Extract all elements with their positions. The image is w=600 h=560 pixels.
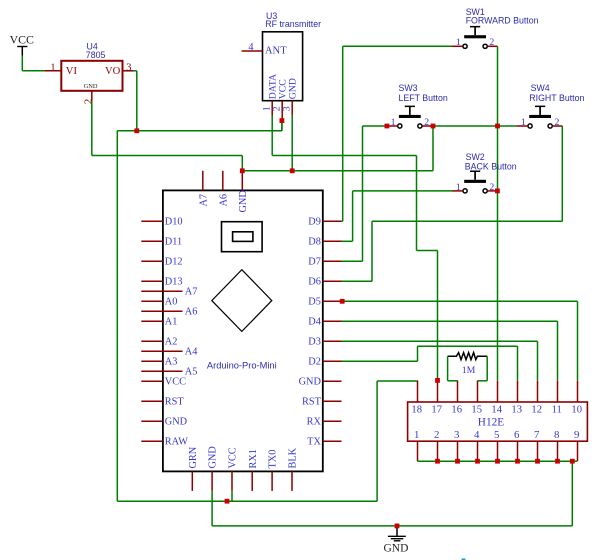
- svg-text:VI: VI: [66, 66, 78, 77]
- Arduino left pin RST stub: [141, 400, 163, 402]
- Arduino left pin A5 stub: [141, 370, 182, 372]
- Arduino top pin GND stub: [241, 171, 243, 191]
- SW3 pin 2 stub: [422, 125, 433, 127]
- SW2 pin 1 stub: [452, 190, 463, 192]
- U3 pin name GND: [288, 78, 299, 99]
- U3 pin 4 stub: [242, 50, 263, 52]
- Arduino pin name A3: [165, 356, 178, 367]
- RF transmitter U3 box: [263, 32, 303, 101]
- svg-text:GND: GND: [165, 416, 188, 427]
- Arduino right pin D8 stub: [323, 240, 342, 242]
- pin number 7 of H12E: [534, 429, 540, 441]
- svg-text:RX: RX: [307, 416, 322, 427]
- Arduino pin name RX right: [307, 416, 322, 427]
- pin number 6 of H12E: [514, 429, 520, 441]
- U3 pin 3 stub: [291, 101, 293, 115]
- pin number 1 of U4: [50, 62, 55, 73]
- svg-text:FORWARD Button: FORWARD Button: [466, 15, 539, 25]
- svg-text:7: 7: [534, 429, 540, 441]
- value RIGHT Button: [529, 93, 584, 103]
- junction at Arduino VCC pin: [225, 499, 230, 504]
- svg-text:A7: A7: [185, 286, 198, 297]
- wire GND rail up to H12E bus: [571, 461, 573, 526]
- svg-text:10: 10: [571, 405, 582, 416]
- Arduino top pin name A7: [198, 194, 209, 207]
- Arduino bottom pin name GRN: [188, 446, 199, 468]
- U4 pin name VI: [66, 66, 78, 77]
- svg-text:18: 18: [411, 405, 422, 416]
- svg-text:GND: GND: [299, 376, 322, 387]
- H12E bottom pin 1 stub: [417, 441, 419, 461]
- junction on GND bus at x=537.5: [535, 459, 540, 464]
- H12E bottom pin 8 stub: [557, 441, 559, 461]
- svg-text:3: 3: [282, 106, 293, 111]
- pin number 2 of U3: [272, 106, 283, 111]
- Arduino bottom pin GRN stub: [191, 471, 193, 491]
- pushbutton SW3: [398, 106, 422, 129]
- pin number 17 of H12E: [431, 405, 442, 416]
- svg-text:TX0: TX0: [268, 450, 279, 469]
- svg-text:1: 1: [50, 62, 55, 73]
- pin number 15 of H12E: [471, 405, 482, 416]
- pin number 2 of SW1: [489, 37, 494, 48]
- svg-text:GND: GND: [208, 446, 219, 469]
- svg-text:4: 4: [248, 42, 253, 53]
- Arduino right pin D9 stub: [323, 220, 342, 222]
- pin number 2 of H12E: [434, 429, 439, 441]
- Arduino pin name D6 right: [308, 276, 321, 287]
- pin number 4 of H12E: [474, 429, 480, 441]
- label SW4: [531, 83, 550, 93]
- wire U4 VO down: [134, 71, 137, 131]
- U3 pin name VCC: [278, 79, 289, 99]
- Arduino left pin D11 stub: [141, 240, 163, 242]
- pin number 1 of SW4: [521, 117, 526, 128]
- svg-text:D8: D8: [308, 236, 321, 247]
- SW3 pin 1 stub: [387, 125, 398, 127]
- junction on GND bus at x=497.5: [495, 459, 500, 464]
- Arduino bottom pin BLK stub: [291, 471, 293, 491]
- H12E bottom pin 3 stub: [457, 441, 459, 461]
- wire GND down to Arduino top GND pin: [241, 156, 243, 171]
- wire Arduino GND pin down: [211, 491, 213, 526]
- Arduino right pin GND stub: [323, 380, 342, 382]
- H12E bottom pin 2 stub: [437, 441, 439, 461]
- value BACK Button: [465, 162, 517, 172]
- label U3: [266, 11, 277, 21]
- Arduino pin name D8 right: [308, 236, 321, 247]
- IC diamond symbol inside Arduino: [212, 270, 272, 332]
- H12E top pin 18 stub: [417, 381, 419, 402]
- svg-text:D11: D11: [165, 236, 182, 247]
- svg-text:RX1: RX1: [248, 449, 259, 468]
- junction at SW3 pin 1: [385, 124, 390, 129]
- Arduino pin name D3 right: [308, 336, 321, 347]
- Arduino right pin D2 stub: [323, 360, 342, 362]
- svg-text:TX: TX: [307, 436, 321, 447]
- svg-text:2: 2: [83, 99, 95, 105]
- svg-text:RAW: RAW: [165, 436, 188, 447]
- SW1 pin 1 stub: [452, 45, 463, 47]
- U4 pin name VO: [105, 66, 121, 77]
- blue mark at bottom edge: [462, 558, 466, 560]
- junction TE at SW2 pin 2: [495, 189, 500, 194]
- Arduino left pin A6 stub: [141, 310, 182, 312]
- svg-text:12: 12: [531, 405, 542, 416]
- power symbol VCC: [10, 32, 34, 55]
- svg-text:VCC: VCC: [165, 376, 186, 387]
- Arduino right pin RX stub: [323, 420, 342, 422]
- svg-text:SW2: SW2: [466, 152, 485, 162]
- H12E top pin 15 stub: [477, 381, 479, 402]
- H12E bottom pin 5 stub: [497, 441, 499, 461]
- svg-text:VO: VO: [105, 66, 121, 77]
- pushbutton SW4: [528, 106, 552, 129]
- svg-text:BACK Button: BACK Button: [465, 162, 517, 172]
- Arduino right pin RST stub: [323, 400, 342, 402]
- wire GND rail right: [242, 170, 433, 172]
- H12E top pin 11 stub: [557, 381, 559, 402]
- H12E top pin 16 stub: [457, 381, 459, 402]
- Arduino pin name A5: [185, 366, 198, 377]
- svg-text:VCC: VCC: [228, 447, 239, 468]
- svg-text:RF transmitter: RF transmitter: [265, 19, 321, 29]
- Arduino bottom pin name VCC: [228, 447, 239, 468]
- Arduino bottom pin GND stub: [211, 471, 213, 491]
- Arduino pin name D10: [165, 216, 183, 227]
- Arduino right pin D6 stub: [323, 280, 342, 282]
- Arduino pin name TX right: [307, 436, 321, 447]
- voltage regulator U4 box: [61, 61, 122, 91]
- U3 pin name DATA: [268, 74, 279, 99]
- Arduino bottom pin VCC stub: [231, 471, 233, 491]
- Arduino right pin D4 stub: [323, 320, 342, 322]
- pin number 1 of SW1: [456, 37, 461, 48]
- wire 5V rail up to H12E pin 18: [377, 381, 417, 501]
- wire SW1 pin1 to D9: [342, 46, 452, 221]
- H12E top pin 14 stub: [497, 381, 499, 402]
- U3 pin 2 stub: [281, 101, 283, 119]
- wire SW1 pin2 to TE vertical: [497, 46, 499, 380]
- pin number 16 of H12E: [451, 405, 462, 416]
- Arduino top pin name A6: [218, 194, 229, 207]
- value 1M: [462, 365, 476, 376]
- svg-text:LEFT Button: LEFT Button: [399, 93, 448, 103]
- junction on GND bus at corner: [570, 459, 575, 464]
- U4 pin 1 stub: [45, 70, 61, 72]
- Arduino left pin VCC stub: [141, 380, 163, 382]
- Arduino left pin D12 stub: [141, 260, 163, 262]
- wire D4 to H12E pin 11: [342, 321, 558, 380]
- pin number 3 of U3: [282, 106, 293, 111]
- Arduino top pin name GND: [238, 190, 249, 213]
- SW1 pin 2 stub: [488, 45, 498, 47]
- svg-text:A0: A0: [165, 296, 178, 307]
- svg-text:D4: D4: [308, 316, 321, 327]
- svg-text:A1: A1: [165, 316, 178, 327]
- junction on GND bus at x=517.5: [515, 459, 520, 464]
- wire SW3 pin2 to SW4 pin1: [433, 125, 516, 127]
- Arduino right pin D3 stub: [323, 340, 342, 342]
- wire SW3 pin1 to D7: [342, 126, 387, 261]
- wire DOUT down to H12E pin 17: [437, 251, 439, 381]
- svg-text:3: 3: [454, 429, 459, 441]
- svg-text:8: 8: [554, 429, 559, 441]
- value Arduino-Pro-Mini: [207, 360, 277, 370]
- svg-text:A2: A2: [165, 336, 178, 347]
- label U4: [87, 42, 98, 52]
- Arduino pin name D5 right: [308, 296, 321, 307]
- Arduino left pin A1 stub: [141, 320, 163, 322]
- svg-text:15: 15: [471, 405, 482, 416]
- pin number 12 of H12E: [531, 405, 542, 416]
- wire D3 to H12E pin 12: [342, 341, 538, 380]
- Arduino-Pro-Mini U-box: [163, 190, 323, 471]
- Arduino pin name D7 right: [308, 256, 321, 267]
- value 7805: [86, 50, 106, 60]
- Arduino pin name A7: [185, 286, 198, 297]
- SW4 pin 2 stub: [552, 125, 562, 127]
- Arduino pin name VCC: [165, 376, 186, 387]
- junction at Arduino D5 pin: [340, 299, 345, 304]
- encoder H12E box: [408, 402, 588, 441]
- Arduino bottom pin TX0 stub: [271, 471, 273, 491]
- pin number 14 of H12E: [491, 405, 502, 416]
- junction TE at button row: [495, 124, 500, 129]
- Arduino bottom pin name BLK: [288, 447, 299, 468]
- U4 pin 3 stub: [123, 70, 134, 72]
- U3 pin 1 stub: [271, 101, 273, 115]
- H12E top pin 12 stub: [537, 381, 539, 402]
- pin number 5 of H12E: [494, 429, 499, 441]
- svg-text:A5: A5: [185, 366, 198, 377]
- wire SW2 pin1 to D8: [342, 191, 453, 241]
- wire H12E address bus to GND: [418, 460, 578, 462]
- pin number 11 of H12E: [552, 405, 562, 416]
- svg-text:A4: A4: [185, 346, 198, 357]
- wire resistor left to H12E pin 16: [448, 356, 458, 381]
- value RF transmitter: [265, 19, 321, 29]
- U4 pin 2 stub: [91, 91, 93, 101]
- svg-text:1M: 1M: [462, 365, 476, 376]
- junction on GND bus at x=477.5: [475, 459, 480, 464]
- svg-text:H12E: H12E: [478, 416, 504, 428]
- value FORWARD Button: [466, 15, 539, 25]
- svg-text:A7: A7: [198, 194, 209, 207]
- label H12E: [478, 416, 504, 428]
- pin number 2 of SW2: [489, 182, 494, 193]
- U3 pin name ANT: [265, 45, 287, 56]
- Arduino pin name RST right: [302, 396, 322, 407]
- pin number 18 of H12E: [411, 405, 422, 416]
- Arduino right pin TX stub: [323, 440, 342, 442]
- svg-text:D3: D3: [308, 336, 321, 347]
- pin number 10 of H12E: [571, 405, 582, 416]
- svg-text:D12: D12: [165, 256, 183, 267]
- svg-text:D7: D7: [308, 256, 321, 267]
- Arduino right pin D7 stub: [323, 260, 342, 262]
- wire 5V rail left: [117, 130, 137, 132]
- svg-text:GRN: GRN: [188, 446, 199, 468]
- svg-text:BLK: BLK: [288, 447, 299, 468]
- svg-text:17: 17: [431, 405, 442, 416]
- svg-text:GND: GND: [384, 543, 409, 555]
- Arduino pin name A4: [185, 346, 198, 357]
- H12E bottom pin 4 stub: [477, 441, 479, 461]
- pin number 1 of U3: [262, 106, 273, 111]
- pin number 9 of H12E: [574, 429, 579, 441]
- junction at H12E pin 17: [435, 378, 440, 383]
- Arduino left pin D13 stub: [141, 280, 163, 282]
- Arduino pin name D9 right: [308, 216, 321, 227]
- Arduino right pin D5 stub: [323, 300, 342, 302]
- svg-text:GND: GND: [84, 83, 98, 90]
- svg-text:D6: D6: [308, 276, 321, 287]
- pin number 4 of U3: [248, 42, 253, 53]
- pushbutton SW1: [463, 26, 487, 49]
- H12E top pin 13 stub: [517, 381, 519, 402]
- pushbutton SW2: [463, 171, 487, 193]
- wire GND rail up to SW3 pin 2: [432, 126, 434, 171]
- svg-text:A3: A3: [165, 356, 178, 367]
- wire D2 to H12E pin 13: [342, 346, 518, 380]
- wire 5V rail to U3 VCC: [137, 119, 282, 131]
- label SW1: [466, 7, 485, 17]
- svg-text:14: 14: [491, 405, 502, 416]
- H12E top pin 17 stub: [437, 381, 439, 402]
- Arduino pin name RAW: [165, 436, 188, 447]
- svg-text:7805: 7805: [86, 50, 106, 60]
- svg-text:A6: A6: [185, 306, 198, 317]
- junction on GND bus at x=457.5: [455, 459, 460, 464]
- svg-text:D9: D9: [308, 216, 321, 227]
- wire U3 GND down to GND rail: [291, 115, 293, 171]
- Arduino pin name GND right: [299, 376, 322, 387]
- pin number 8 of H12E: [554, 429, 559, 441]
- svg-text:2: 2: [434, 429, 439, 441]
- Arduino left pin A7 stub: [141, 290, 182, 292]
- wire U3 DATA down: [271, 115, 273, 156]
- wire SW4 pin2 to D6: [342, 126, 563, 281]
- pin number 2 of U4: [83, 99, 95, 105]
- svg-text:1: 1: [414, 429, 419, 441]
- value LEFT Button: [399, 93, 448, 103]
- svg-text:GND: GND: [288, 78, 299, 99]
- junction at U3 GND wire: [290, 168, 295, 173]
- pin number 13 of H12E: [511, 405, 522, 416]
- SW2 pin 2 stub: [488, 190, 496, 192]
- junction at SW3 pin 2: [431, 124, 436, 129]
- Arduino bottom pin name TX0: [268, 450, 279, 469]
- wire D5 to H12E pin 10: [342, 301, 577, 380]
- Arduino pin name D4 right: [308, 316, 321, 327]
- crystal symbol inside Arduino: [222, 222, 263, 252]
- Arduino top pin A7 stub: [202, 171, 204, 191]
- wire Arduino VCC pin to 5V rail: [231, 491, 233, 501]
- wire resistor right to H12E pin 15: [478, 356, 488, 381]
- svg-text:GND: GND: [238, 190, 249, 213]
- junction at U3 pin 2: [280, 118, 285, 123]
- svg-text:5: 5: [494, 429, 499, 441]
- Arduino pin name D2 right: [308, 356, 321, 367]
- Arduino left pin GND stub: [141, 420, 163, 422]
- wire bottom GND rail: [212, 525, 572, 527]
- svg-text:Arduino-Pro-Mini: Arduino-Pro-Mini: [207, 360, 277, 370]
- wire 5V vertical down left side: [116, 131, 118, 501]
- label SW3: [399, 83, 418, 93]
- svg-text:4: 4: [474, 429, 480, 441]
- Arduino left pin RAW stub: [141, 440, 163, 442]
- svg-text:SW4: SW4: [531, 83, 550, 93]
- pin number 1 of SW3: [391, 117, 396, 128]
- junction on GND bus at x=557.5: [555, 459, 560, 464]
- wire U3 VCC down to 5V corner: [281, 122, 283, 131]
- svg-text:13: 13: [511, 405, 522, 416]
- svg-text:D10: D10: [165, 216, 183, 227]
- H12E bottom pin 6 stub: [517, 441, 519, 461]
- Arduino pin name D12: [165, 256, 183, 267]
- SW4 pin 1 stub: [516, 125, 528, 127]
- svg-text:VCC: VCC: [10, 32, 34, 46]
- svg-text:A6: A6: [218, 194, 229, 207]
- svg-text:3: 3: [126, 62, 131, 73]
- pin number 3 of H12E: [454, 429, 459, 441]
- wire DATA to DOUT run right: [272, 155, 416, 157]
- wire VCC symbol to U4 VI: [22, 56, 45, 71]
- Arduino pin name A1: [165, 316, 178, 327]
- svg-text:11: 11: [552, 405, 562, 416]
- label SW2: [466, 152, 485, 162]
- Arduino pin name A0: [165, 296, 178, 307]
- Arduino pin name A6: [185, 306, 198, 317]
- Arduino pin name A2: [165, 336, 178, 347]
- U4 pin name GND: [84, 83, 98, 90]
- svg-text:16: 16: [451, 405, 462, 416]
- Arduino pin name D11: [165, 236, 182, 247]
- svg-text:9: 9: [574, 429, 579, 441]
- H12E top pin 10 stub: [577, 381, 579, 402]
- wire 5V bottom rail: [117, 500, 377, 502]
- Arduino top pin A6 stub: [222, 171, 224, 191]
- Arduino pin name RST: [165, 396, 185, 407]
- Arduino bottom pin RX1 stub: [251, 471, 253, 491]
- pin number 2 of SW3: [424, 117, 429, 128]
- svg-text:RST: RST: [165, 396, 185, 407]
- svg-text:D2: D2: [308, 356, 321, 367]
- svg-text:ANT: ANT: [265, 45, 287, 56]
- Arduino left pin A0 stub: [141, 300, 163, 302]
- ground symbol GND: [384, 526, 409, 555]
- junction at GND symbol: [395, 524, 400, 529]
- svg-text:D13: D13: [165, 276, 183, 287]
- Arduino bottom pin name RX1: [248, 449, 259, 468]
- wire U4 GND down and right: [92, 101, 243, 156]
- pin number 1 of H12E: [414, 429, 419, 441]
- svg-text:6: 6: [514, 429, 520, 441]
- pin number 2 of SW4: [555, 117, 560, 128]
- pin number 3 of U4: [126, 62, 131, 73]
- Arduino left pin A3 stub: [141, 360, 163, 362]
- wire DOUT vertical jog: [417, 156, 438, 251]
- junction on GND bus at x=437.5: [435, 459, 440, 464]
- junction at Arduino top GND pin: [240, 168, 245, 173]
- svg-text:D5: D5: [308, 296, 321, 307]
- H12E bottom pin 9 stub: [577, 441, 579, 461]
- wire SW2 pin2 to TE: [495, 190, 498, 192]
- svg-text:RIGHT Button: RIGHT Button: [529, 93, 584, 103]
- Arduino pin name D13: [165, 276, 183, 287]
- pin number 1 of SW2: [456, 182, 461, 193]
